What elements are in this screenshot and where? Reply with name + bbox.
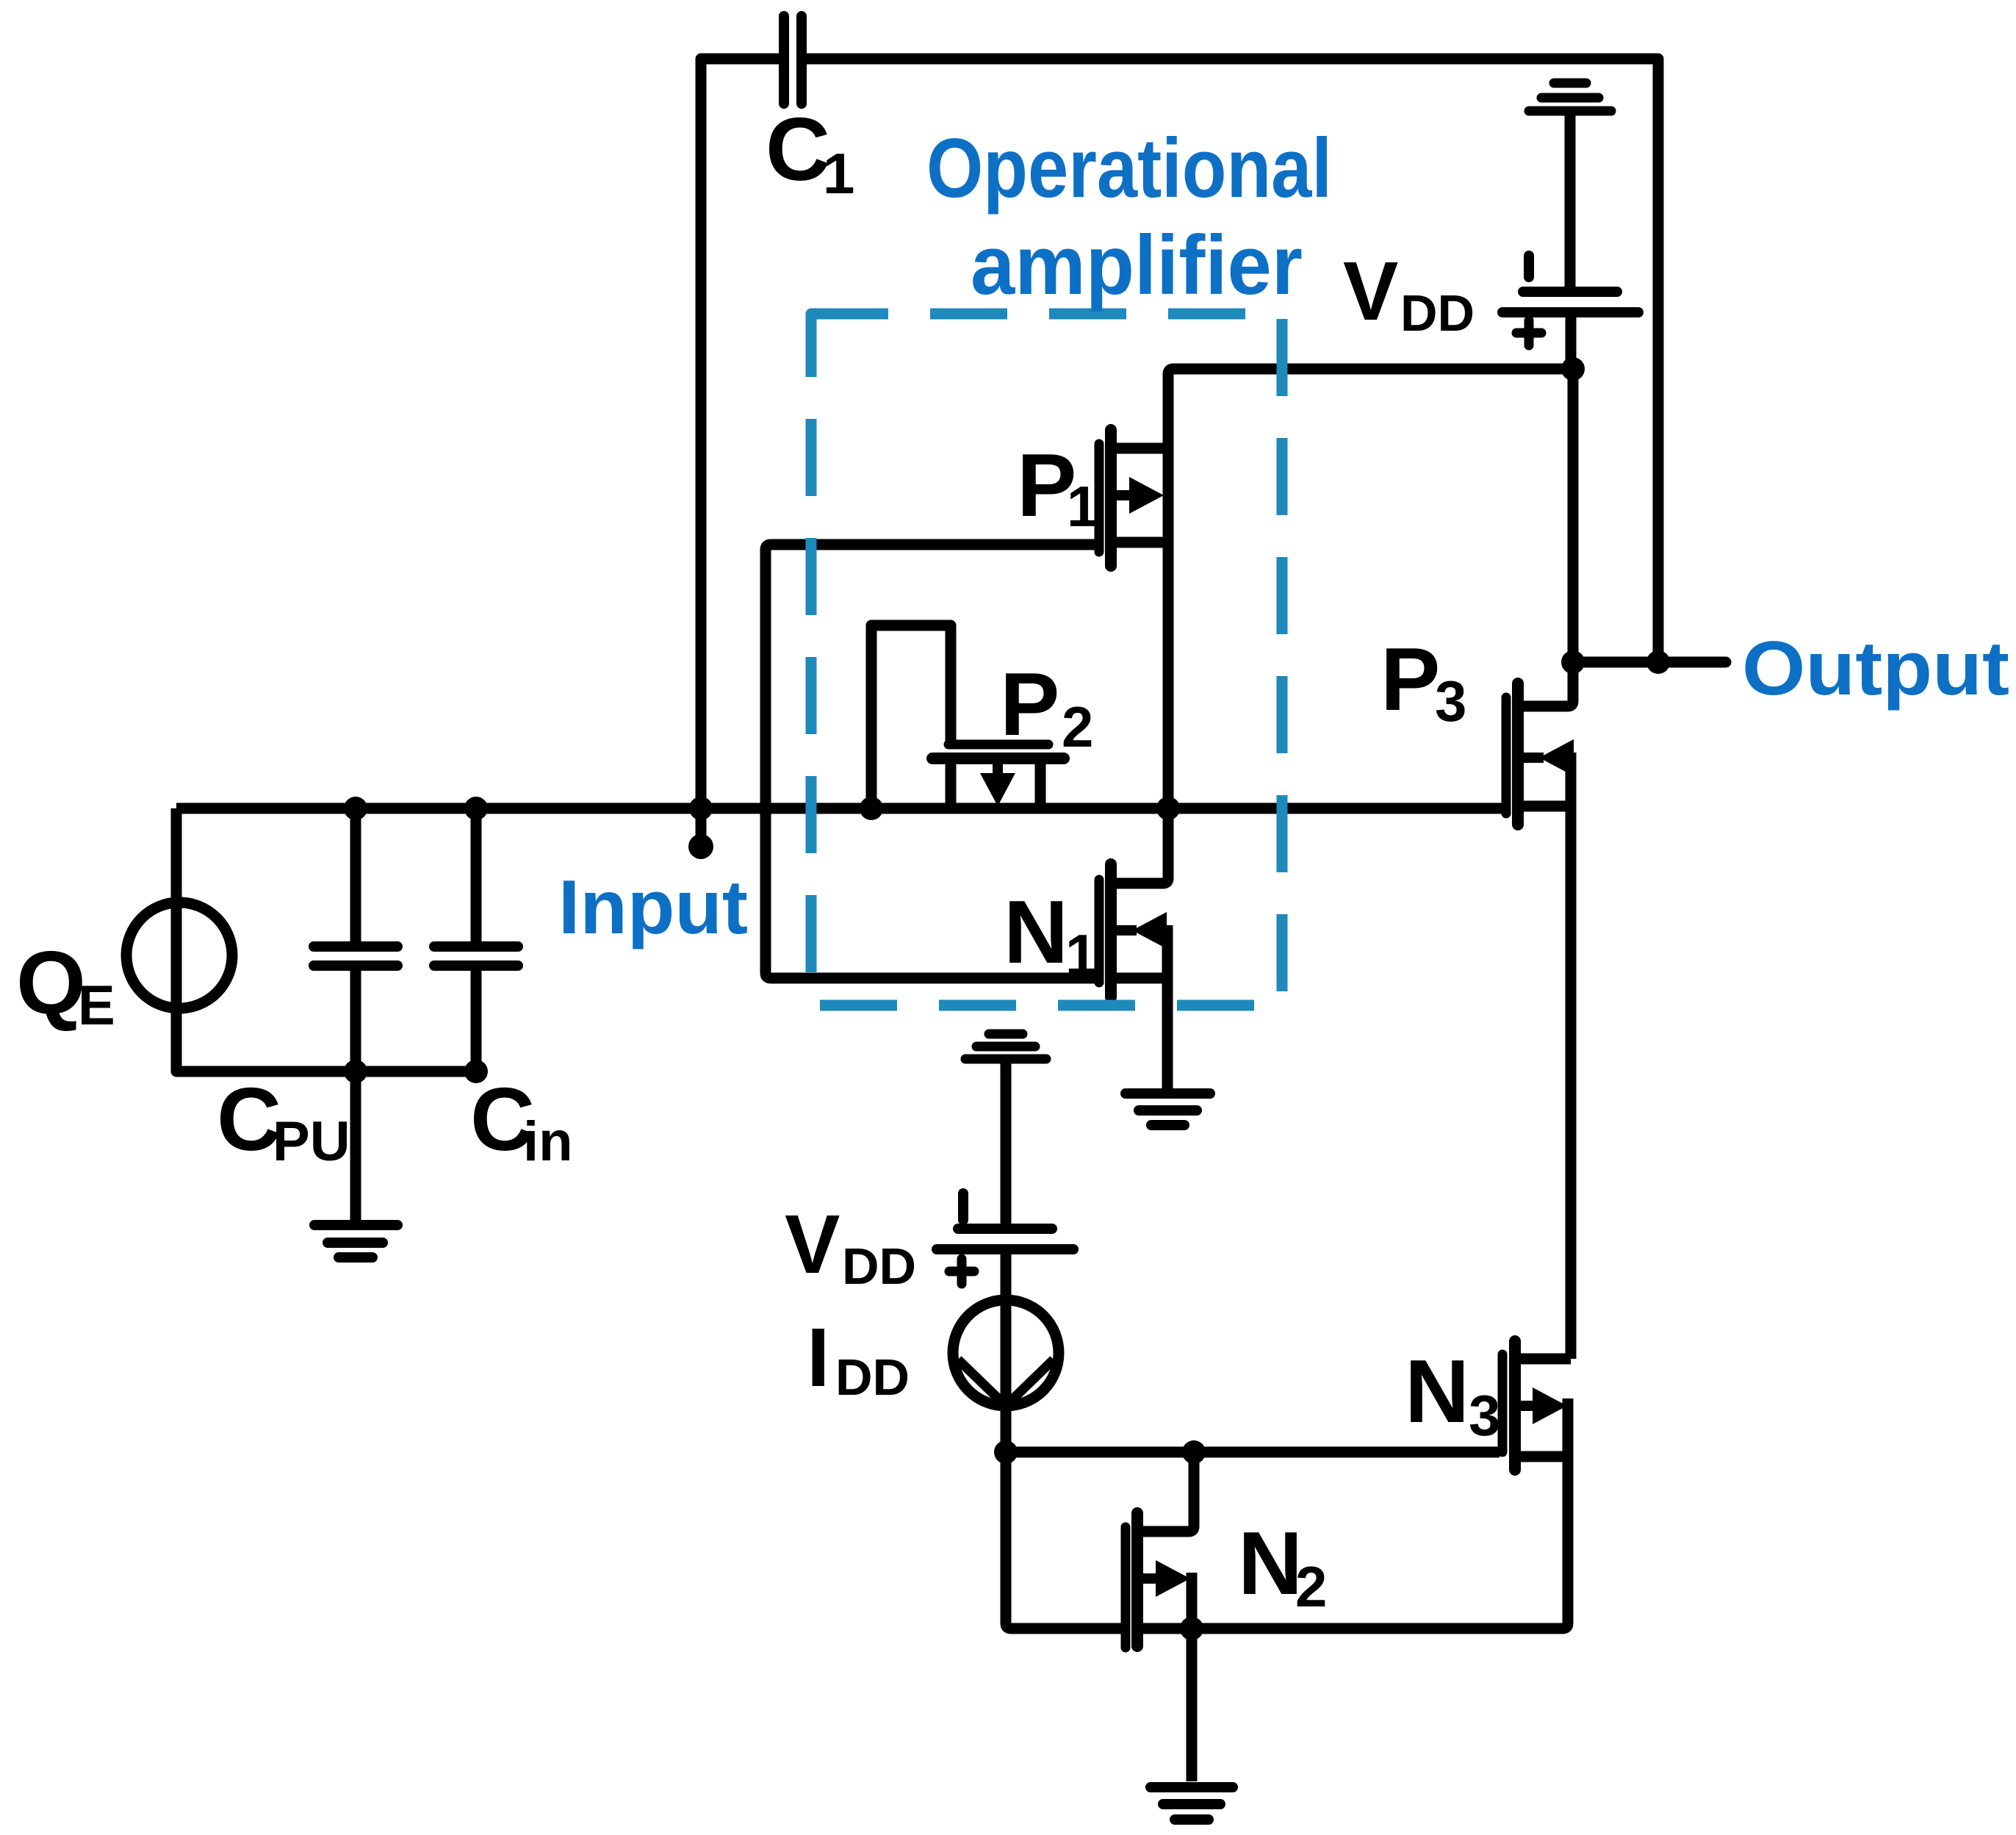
transistor N2 (bulk arrow, right) [1142, 1560, 1190, 1597]
wire: P3 source bar down to N3 drain arm [1566, 753, 1577, 1359]
wire: mirror gate rail (IDD node to N3 gate) [1006, 1447, 1500, 1458]
transistor N3 (gate bar) [1498, 1354, 1508, 1452]
svg-text:Output: Output [1742, 626, 2009, 711]
svg-text:DD: DD [835, 1349, 910, 1406]
battery VDD1 (plus sign) [1516, 320, 1541, 345]
op-amp boundary (dashed box) [811, 314, 1282, 1005]
node: P1/N1 column on main rail [1156, 797, 1180, 820]
battery VDD2 (long plate) [937, 1244, 1073, 1254]
transistor P3 (channel bar) [1512, 683, 1524, 825]
svg-text:P: P [1000, 654, 1059, 754]
label VDD (middle) [785, 1198, 916, 1295]
transistor P1 (channel bar) [1105, 430, 1117, 566]
node: N2 drain tap [1182, 1440, 1206, 1464]
transistor P3 (gate bar) [1502, 697, 1511, 814]
ground (below N1) [1126, 1094, 1210, 1125]
transistor P1 (bulk arrow, right) [1116, 477, 1164, 514]
transistor N3 (bulk arrow, right) [1519, 1387, 1567, 1424]
capacitor CPU [350, 808, 361, 1221]
svg-text:E: E [78, 974, 115, 1037]
node: input riser junction [689, 797, 713, 820]
transistor N1 (gate bar) [1095, 880, 1104, 983]
node: CPU top junction [344, 797, 367, 820]
label N2 [1238, 1513, 1327, 1619]
wire: ground to battery VDD1 [1565, 115, 1576, 287]
wire: P2 gate loop [871, 625, 951, 808]
svg-text:1: 1 [1067, 474, 1098, 539]
transistor P2 (left arm) [946, 763, 957, 808]
svg-text:N: N [1004, 882, 1068, 982]
svg-text:Q: Q [16, 933, 86, 1033]
transistor P3 (bottom arm) [1523, 801, 1571, 812]
transistor N2 (gate bar) [1121, 1527, 1131, 1648]
battery VDD1 (minus tick) [1524, 256, 1534, 277]
transistor N3 (channel bar) [1509, 1341, 1521, 1470]
transistor P2 (channel bar) [932, 753, 1064, 764]
node: IDD output [994, 1440, 1018, 1464]
wire: C1 right plate along top and down right edge to output [806, 59, 1658, 657]
label VDD (top) [1343, 245, 1475, 342]
transistor P2 (bulk arrow, down) [980, 763, 1015, 806]
transistor N1 (channel bar) [1105, 864, 1117, 997]
svg-text:P: P [1380, 629, 1440, 729]
node: Cin bottom junction [464, 1060, 488, 1083]
transistor P2 (right arm) [1035, 763, 1046, 808]
wire: battery VDD2 through IDD to mirror node [1001, 1254, 1012, 1452]
svg-text:in: in [523, 1110, 573, 1173]
wire: input riser to C1 left plate [701, 59, 780, 808]
svg-text:Operational: Operational [926, 122, 1332, 215]
charge source QE [126, 902, 232, 1008]
transistor P2 (gate bar) [948, 740, 1048, 750]
node: P2 loop on main rail [860, 797, 883, 820]
label P3 [1380, 629, 1466, 733]
label Cin [470, 1069, 573, 1173]
transistor P1 (gate bar) [1095, 444, 1104, 552]
transistor N2 (drain arm up to mirror rail) [1142, 1452, 1194, 1531]
transistor N3 (source arm) [1519, 1451, 1568, 1462]
label CPU [217, 1069, 350, 1173]
ground (below N2) [1151, 1787, 1233, 1820]
node: N2 source [1180, 1617, 1203, 1640]
transistor N2 (channel bar) [1131, 1513, 1143, 1646]
svg-text:I: I [807, 1311, 829, 1404]
node: output right (C1 loop) [1646, 650, 1670, 674]
transistor N1 (bottom arm) [1116, 973, 1167, 984]
svg-text:3: 3 [1469, 1383, 1500, 1448]
svg-text:C: C [217, 1069, 281, 1169]
node: output left [1561, 650, 1585, 674]
battery VDD1 (long plate) [1502, 307, 1638, 317]
svg-text:2: 2 [1295, 1554, 1327, 1619]
svg-text:Input: Input [558, 865, 748, 950]
transistor N2 (source arm) [1142, 1623, 1192, 1634]
current source IDD (circle) [953, 1300, 1059, 1406]
wire: ground to battery VDD2 [1001, 1063, 1012, 1224]
label C1 [766, 99, 854, 206]
label N3 [1405, 1341, 1500, 1448]
wire: IDD node down to N2 gate [1006, 1452, 1121, 1628]
label N1 [1004, 882, 1097, 987]
transistor N2 (source bar) [1187, 1573, 1198, 1628]
svg-text:2: 2 [1062, 694, 1093, 759]
svg-text:DD: DD [1400, 284, 1475, 342]
transistor P1 (top arm) [1116, 443, 1168, 454]
ground (below CPU) [314, 1225, 397, 1257]
wire: VDD rail to P1 drain column down to N1 drain arm [1116, 369, 1573, 883]
transistor P3 (bulk arrow, left) [1523, 739, 1574, 776]
svg-text:1: 1 [1065, 922, 1097, 987]
wire: output [1573, 657, 1726, 668]
capacitor C1 [784, 16, 802, 104]
battery VDD1 (short plate) [1523, 287, 1617, 297]
svg-text:amplifier: amplifier [971, 219, 1303, 312]
current source IDD (arrow V) [958, 1360, 1054, 1406]
label QE [16, 933, 115, 1037]
input terminal stub and dot [696, 808, 707, 838]
svg-text:C: C [766, 99, 830, 199]
node: Cin top junction [464, 797, 488, 820]
ground (above VDD battery 2) [965, 1034, 1046, 1059]
label Operational amplifier [926, 122, 1332, 312]
label IDD [807, 1311, 910, 1406]
ground (top right, above VDD battery) [1529, 83, 1611, 111]
wire: N3 source bar down and left to N2 source [1192, 1398, 1568, 1628]
transistor N1 (source bar) [1162, 925, 1173, 1088]
node: QE/CPU bottom junction [344, 1060, 367, 1083]
svg-text:DD: DD [842, 1238, 916, 1295]
svg-text:PU: PU [273, 1110, 350, 1173]
battery VDD2 (short plate) [958, 1224, 1052, 1234]
transistor N1 (bulk arrow, left) [1116, 912, 1167, 949]
svg-text:3: 3 [1435, 669, 1466, 733]
svg-text:V: V [785, 1198, 840, 1290]
svg-text:1: 1 [823, 141, 854, 206]
wire: QE loop (left vertical, bottom run) [176, 808, 478, 1071]
label P2 [1000, 654, 1093, 759]
wire: main input rail [176, 803, 1502, 814]
label P1 [1017, 435, 1098, 539]
battery VDD2 (minus tick) [958, 1193, 968, 1220]
svg-text:N: N [1238, 1513, 1303, 1613]
capacitor Cin [471, 808, 482, 1071]
wire: battery VDD1 down to output node and P3 top arm [1522, 317, 1573, 706]
battery VDD2 (plus sign) [949, 1259, 974, 1284]
svg-text:V: V [1343, 245, 1398, 337]
node: VDD junction [1561, 357, 1585, 381]
svg-text:N: N [1405, 1341, 1469, 1441]
wire: N2 source to ground [1187, 1628, 1198, 1781]
wire: P1/N1 gate link [766, 545, 1099, 978]
transistor P1 (bottom arm) [1116, 537, 1168, 548]
transistor N3 (drain arm) [1519, 1354, 1571, 1365]
